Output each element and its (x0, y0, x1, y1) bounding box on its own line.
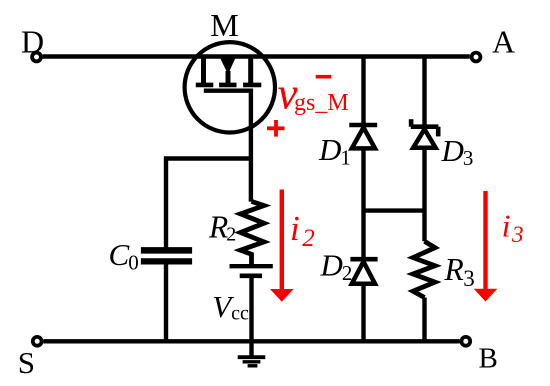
svg-text:B: B (479, 343, 498, 375)
svg-text:S: S (18, 345, 35, 380)
svg-text:M: M (210, 7, 238, 43)
svg-text:A: A (492, 24, 515, 60)
svg-text:D: D (21, 23, 44, 59)
